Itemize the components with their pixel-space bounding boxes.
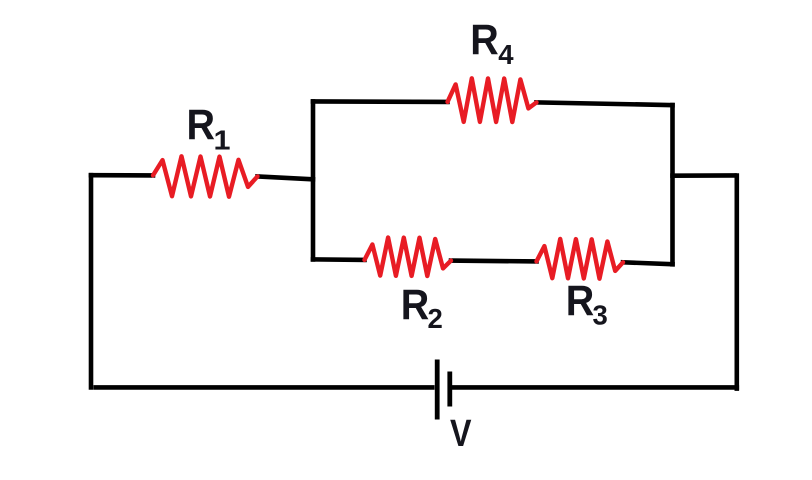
svg-text:V: V [450,413,472,455]
svg-text:R: R [401,281,430,329]
svg-text:R: R [470,16,499,64]
svg-text:R: R [566,277,595,325]
svg-text:R: R [187,101,216,149]
svg-text:4: 4 [498,39,514,70]
svg-text:3: 3 [593,300,608,331]
svg-text:1: 1 [214,125,231,156]
svg-text:2: 2 [428,303,443,334]
